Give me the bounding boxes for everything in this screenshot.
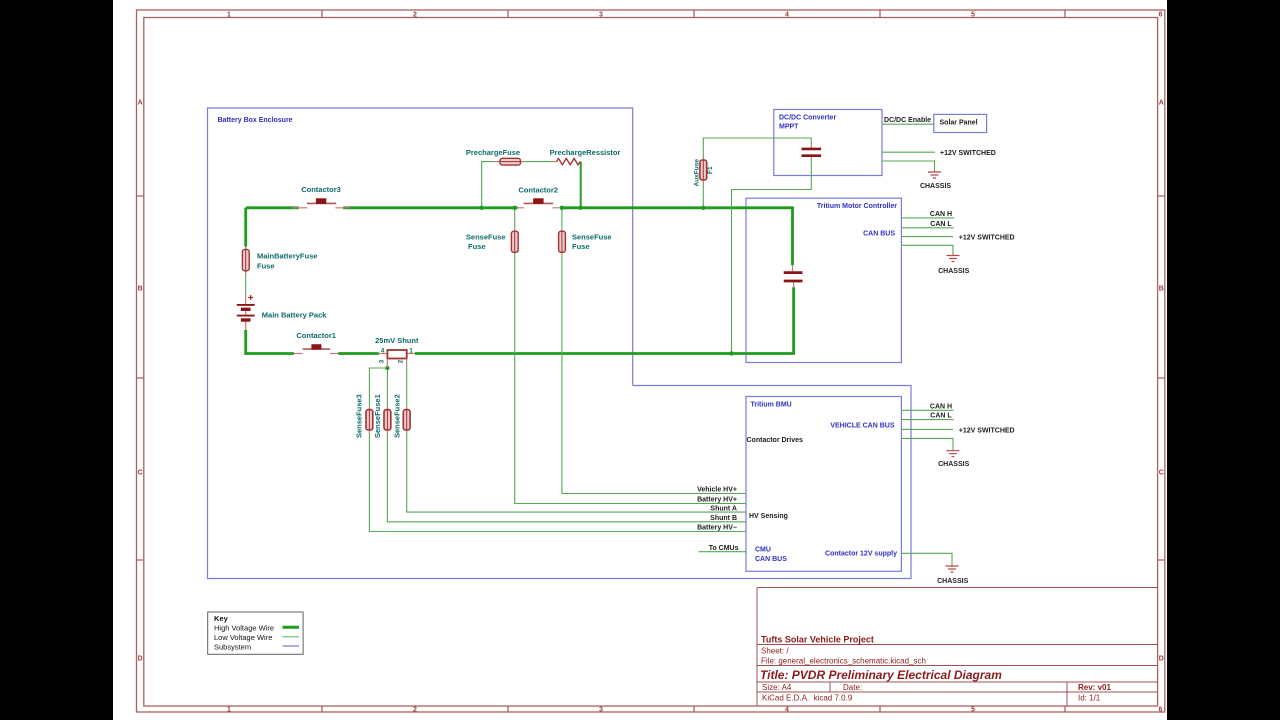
svg-text:Rev: v01: Rev: v01 (1078, 683, 1111, 692)
battery box enclosure outline (208, 108, 633, 579)
fuse MainBatteryFuse (242, 247, 249, 275)
svg-text:Battery HV−: Battery HV− (697, 525, 737, 532)
svg-text:CAN L: CAN L (930, 413, 952, 420)
svg-text:File: general_electronics_sche: File: general_electronics_schematic.kica… (761, 657, 926, 666)
wire precharge fuse left riser (482, 162, 495, 208)
svg-text:CAN H: CAN H (930, 403, 952, 410)
svg-text:D: D (138, 656, 143, 663)
svg-text:+12V SWITCHED: +12V SWITCHED (959, 235, 1015, 242)
svg-text:SenseFuse2: SenseFuse2 (392, 394, 401, 438)
svg-text:Shunt A: Shunt A (710, 505, 737, 512)
junction aux fuse on bus (701, 206, 705, 210)
wire DC/DC cap bottom to bottom bus (732, 160, 812, 354)
wire HV left branch battery bottom (246, 330, 294, 354)
svg-text:CAN BUS: CAN BUS (863, 231, 895, 238)
svg-text:SenseFuse: SenseFuse (572, 233, 612, 242)
svg-text:PrechargeRessistor: PrechargeRessistor (550, 148, 621, 157)
svg-text:Solar Panel: Solar Panel (940, 119, 978, 126)
BMU subsystem enclosure outline (633, 386, 911, 579)
wire DC/DC chassis (882, 161, 935, 172)
key legend box (208, 612, 303, 654)
key legend subsystem sample (283, 645, 300, 647)
svg-text:Subsystem: Subsystem (214, 642, 251, 651)
svg-text:4: 4 (381, 348, 385, 355)
svg-text:Contactor3: Contactor3 (301, 185, 341, 194)
svg-text:A: A (1159, 100, 1164, 107)
ground CHASSIS (DC/DC) (928, 172, 941, 178)
fuse SenseFuse (left, battery box) (511, 229, 518, 255)
junction DC/DC cap return on bottom bus (729, 351, 733, 355)
svg-text:Shunt B: Shunt B (710, 515, 737, 522)
ground CHASSIS (BMU) (947, 451, 960, 457)
wire main battery fuse to battery (245, 271, 247, 293)
wire HV top bus middle segment (343, 206, 517, 209)
battery Main Battery Pack (237, 293, 255, 330)
svg-text:Date:: Date: (843, 683, 862, 692)
wire HV bottom bus segment after contactor1 (338, 352, 379, 355)
contactor Contactor3 (292, 198, 350, 208)
fuse AuxFuse F1 (700, 158, 707, 184)
svg-text:Id: 1/1: Id: 1/1 (1078, 694, 1101, 703)
svg-text:PrechargeFuse: PrechargeFuse (466, 148, 520, 157)
ground CHASSIS (motor controller) (947, 256, 960, 262)
wire DC/DC enable (882, 123, 934, 125)
svg-text:Tritium Motor Controller: Tritium Motor Controller (817, 203, 897, 210)
svg-text:Fuse: Fuse (468, 242, 486, 251)
svg-text:DC/DC Enable: DC/DC Enable (884, 117, 931, 124)
svg-text:Contactor 12V supply: Contactor 12V supply (825, 551, 897, 558)
svg-text:Contactor Drives: Contactor Drives (747, 437, 804, 444)
ground CHASSIS (contactor supply) (946, 566, 959, 572)
svg-text:B: B (1159, 286, 1164, 293)
svg-text:Title: PVDR Preliminary Electr: Title: PVDR Preliminary Electrical Diagr… (760, 668, 1002, 682)
svg-text:DC/DC Converter: DC/DC Converter (779, 115, 836, 122)
svg-text:CAN H: CAN H (930, 211, 952, 218)
svg-text:F1: F1 (707, 166, 714, 174)
capacitor (DC/DC converter) (802, 145, 822, 161)
svg-text:C: C (138, 470, 143, 477)
junction shunt pin3 (385, 366, 389, 370)
capacitor (motor controller) (784, 265, 803, 287)
svg-text:HV Sensing: HV Sensing (749, 513, 788, 520)
shunt 25mV Shunt (379, 350, 415, 368)
svg-text:5: 5 (971, 12, 975, 19)
svg-text:SenseFuse: SenseFuse (466, 233, 506, 242)
svg-text:Size: A4: Size: A4 (762, 683, 792, 692)
svg-text:B: B (138, 286, 143, 293)
svg-text:4: 4 (785, 12, 789, 19)
svg-text:MainBatteryFuse: MainBatteryFuse (257, 252, 317, 261)
svg-text:25mV Shunt: 25mV Shunt (375, 336, 419, 345)
svg-text:3: 3 (599, 707, 603, 714)
fuse SenseFuse (right, battery box) (559, 229, 566, 255)
svg-text:Fuse: Fuse (257, 262, 275, 271)
wire BMU CAN H (901, 409, 953, 411)
svg-text:CHASSIS: CHASSIS (920, 183, 951, 190)
DC/DC converter subsystem box (774, 110, 882, 176)
wire between precharge fuse and resistor (525, 161, 553, 163)
wire BMU CAN L (901, 419, 953, 421)
wire sense fuse A to Battery HV+ (515, 255, 746, 504)
junction precharge resistor drop on bus (579, 206, 583, 210)
Tritium motor controller subsystem box (746, 198, 901, 362)
fuse SenseFuse2 (403, 407, 410, 433)
frame outer border (137, 10, 1165, 712)
junction precharge left riser on bus (480, 206, 484, 210)
contactor Contactor2 (518, 198, 561, 208)
svg-text:Contactor1: Contactor1 (296, 331, 336, 340)
svg-text:Battery Box Enclosure: Battery Box Enclosure (218, 117, 293, 124)
resistor PrechargeRessistor (553, 159, 581, 165)
Tritium BMU subsystem box (746, 397, 901, 572)
wire shunt pin3 junction left leg (369, 368, 387, 407)
wire motor controller +12V switched (901, 236, 953, 238)
frame column ticks top (322, 10, 1065, 18)
svg-text:Contactor2: Contactor2 (518, 186, 558, 195)
svg-text:Main Battery Pack: Main Battery Pack (262, 311, 327, 320)
wire HV top bus left segment (246, 206, 299, 209)
svg-text:6: 6 (1159, 12, 1163, 19)
wire shunt pin3 to sense fuse 1 (386, 368, 388, 407)
contactor Contactor1 (294, 344, 338, 353)
frame row ticks left (137, 196, 144, 560)
wire precharge resistor drop to bus (580, 162, 582, 208)
svg-text:CAN BUS: CAN BUS (755, 556, 787, 563)
svg-text:+12V SWITCHED: +12V SWITCHED (940, 150, 996, 157)
svg-text:1: 1 (227, 707, 231, 714)
svg-text:4: 4 (785, 707, 789, 714)
svg-text:CHASSIS: CHASSIS (938, 461, 969, 468)
wire DC/DC +12V switched (882, 151, 935, 153)
svg-text:2: 2 (413, 12, 417, 19)
svg-text:Tufts Solar Vehicle Project: Tufts Solar Vehicle Project (761, 635, 874, 645)
svg-text:CHASSIS: CHASSIS (937, 578, 968, 585)
svg-text:Key: Key (214, 614, 229, 623)
wire sense fuse A top (514, 208, 516, 229)
svg-text:1: 1 (409, 348, 413, 355)
svg-text:+12V SWITCHED: +12V SWITCHED (959, 427, 1015, 434)
svg-text:CAN L: CAN L (930, 221, 952, 228)
wire BMU +12V switched (901, 428, 953, 430)
wire HV top bus right segment with drop to motor controller cap (560, 208, 792, 265)
wire motor controller chassis (901, 245, 953, 255)
svg-text:5: 5 (971, 707, 975, 714)
svg-text:Low Voltage Wire: Low Voltage Wire (214, 633, 272, 642)
svg-text:A: A (138, 100, 143, 107)
wire motor controller CAN H (901, 217, 954, 219)
wire sense fuse B top (561, 208, 563, 229)
wire shunt pin2 to sense fuse 2 (406, 366, 408, 407)
key legend low voltage wire sample (283, 636, 300, 638)
svg-text:Sheet: /: Sheet: / (761, 647, 789, 656)
wire aux fuse top to DC/DC cap (703, 138, 811, 158)
svg-text:1: 1 (227, 12, 231, 19)
svg-text:2: 2 (398, 359, 405, 363)
wire sense fuse B to Vehicle HV+ (562, 255, 746, 494)
svg-text:3: 3 (599, 12, 603, 19)
frame inner border (144, 18, 1158, 707)
junction sense fuse A on bus (513, 206, 517, 210)
wire HV left branch battery top (244, 208, 247, 247)
wire to CMUs (699, 551, 747, 553)
svg-text:VEHICLE CAN BUS: VEHICLE CAN BUS (830, 423, 895, 430)
title block border lines (757, 588, 1158, 707)
wire contactor 12V supply chassis (901, 553, 952, 565)
wire BMU chassis (901, 438, 953, 450)
svg-text:To CMUs: To CMUs (709, 545, 739, 552)
svg-text:D: D (1159, 656, 1164, 663)
solar panel box (934, 114, 987, 132)
frame row ticks right (1158, 196, 1165, 560)
frame column ticks bottom (322, 706, 1065, 712)
wire aux fuse bottom to bus (702, 183, 704, 208)
wire sense fuse 2 to Shunt A (407, 433, 746, 512)
wire sense fuse 3 to Battery HV- (369, 433, 746, 532)
svg-text:C: C (1159, 470, 1164, 477)
wire HV bottom bus right segment with rise to motor controller cap (415, 287, 794, 353)
fuse SenseFuse3 (366, 407, 373, 433)
wire motor controller CAN L (901, 227, 953, 229)
svg-text:3: 3 (379, 359, 386, 363)
fuse PrechargeFuse (495, 158, 525, 165)
wire sense fuse 1 to Shunt B (387, 433, 746, 522)
svg-text:High Voltage Wire: High Voltage Wire (214, 623, 274, 632)
svg-text:KiCad E.D.A. kicad 7.0.9: KiCad E.D.A. kicad 7.0.9 (762, 694, 853, 703)
svg-text:Tritium BMU: Tritium BMU (751, 402, 792, 409)
svg-text:6: 6 (1159, 707, 1163, 714)
svg-text:Vehicle HV+: Vehicle HV+ (697, 487, 737, 494)
svg-text:CMU: CMU (755, 547, 771, 554)
svg-text:SenseFuse1: SenseFuse1 (373, 394, 382, 438)
svg-text:SenseFuse3: SenseFuse3 (355, 394, 364, 438)
svg-text:2: 2 (413, 707, 417, 714)
key legend high voltage wire sample (283, 626, 300, 629)
junction sense fuse B on bus (560, 206, 564, 210)
svg-text:CHASSIS: CHASSIS (938, 268, 969, 275)
svg-text:AuxFuse: AuxFuse (694, 159, 701, 187)
svg-text:MPPT: MPPT (779, 124, 799, 131)
fuse SenseFuse1 (384, 407, 391, 433)
svg-text:Fuse: Fuse (572, 242, 590, 251)
svg-text:Battery HV+: Battery HV+ (697, 497, 737, 504)
